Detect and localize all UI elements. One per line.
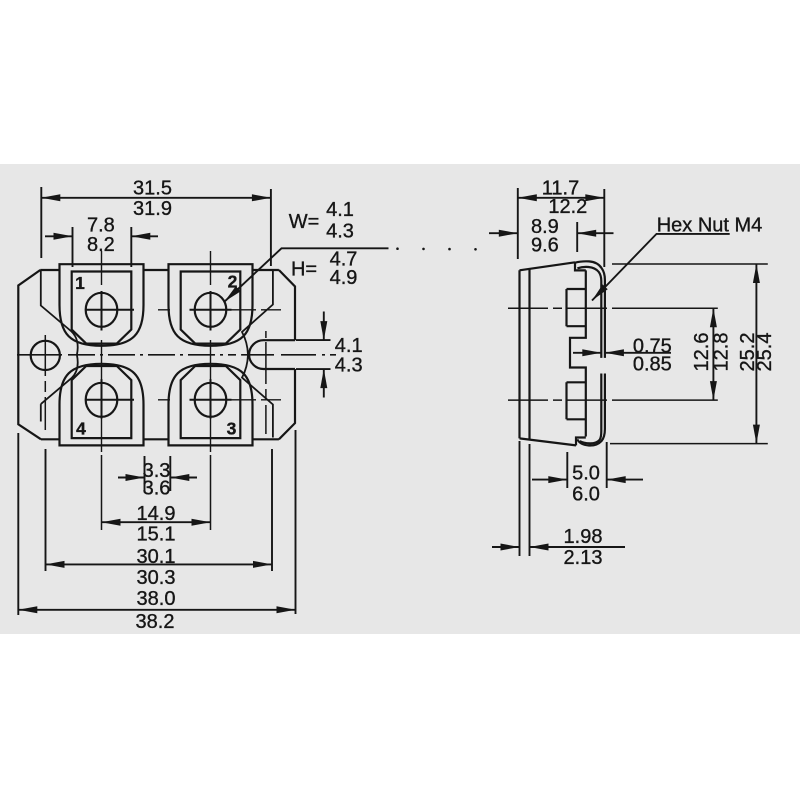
arrows 30.1	[46, 561, 65, 568]
dim 1.98/2.13 ext lines	[520, 441, 530, 556]
dim 3.3/3.6 arrow tails	[118, 477, 197, 479]
package body outline with corner cuts and right open slot	[18, 270, 295, 439]
rim corner contour top-right	[242, 270, 273, 355]
svg-text:31.9: 31.9	[133, 198, 172, 220]
svg-text:15.1: 15.1	[137, 524, 176, 546]
terminal column centerlines	[102, 251, 211, 452]
dim 8.9/9.6 arrow tails	[489, 232, 614, 234]
svg-text:30.3: 30.3	[137, 567, 176, 589]
bottom clip inner curve	[580, 374, 602, 444]
dim 25.2/25.4 ext lines	[610, 264, 768, 444]
bottom step notch	[576, 438, 586, 446]
upper nut centerline	[508, 307, 613, 309]
top slanted edge	[520, 262, 576, 270]
right mounting hole centerline vertical	[265, 331, 267, 434]
dim 31.5/31.9 ext lines	[41, 187, 271, 266]
dim 14.9/15.1 line	[102, 521, 211, 523]
svg-text:4.3: 4.3	[335, 355, 363, 377]
dim 7.8/8.2 ext lines	[73, 227, 132, 267]
arrows 7.8	[54, 233, 73, 240]
dim 30.1/30.3 line	[46, 563, 273, 565]
dim 3.3/3.6 ext lines	[145, 456, 171, 491]
row centerline	[123, 309, 282, 311]
arrows 4.1 slot	[320, 321, 327, 340]
dim 31.5/31.9 line	[41, 197, 271, 199]
bottom row terminals (terminal 4 and terminal 3) : vertical mirror of top row	[60, 364, 282, 446]
terminal 1 screw hole	[86, 293, 118, 327]
svg-text:2.13: 2.13	[564, 547, 603, 569]
svg-text:38.0: 38.0	[137, 588, 176, 610]
svg-text:4.9: 4.9	[330, 267, 358, 289]
arrows 11.7	[518, 194, 537, 201]
dim 4.1/4.3 slot ext lines	[296, 340, 331, 369]
svg-text:1.98: 1.98	[564, 526, 603, 548]
bottom clip outer curve	[577, 374, 605, 446]
svg-text:25.4: 25.4	[754, 333, 776, 372]
svg-text:12.6: 12.6	[691, 333, 713, 372]
hex nut leader line	[592, 234, 730, 301]
arrow hex nut leader	[589, 284, 607, 303]
arrows 3.3	[126, 474, 145, 481]
dim 38.0/38.2 ext lines	[18, 430, 295, 615]
terminal 1 inner collar	[72, 272, 132, 344]
dim 25.2/25.4 line	[755, 264, 757, 444]
arrow W/H leader	[222, 286, 241, 304]
svg-text:6.0: 6.0	[572, 484, 600, 506]
dim 5.0/6.0 ext lines	[567, 442, 606, 488]
svg-text:1: 1	[75, 273, 85, 293]
gray drawing band	[0, 164, 800, 634]
svg-text:0.85: 0.85	[633, 354, 672, 376]
arrows 25.2	[753, 264, 760, 283]
arrows 12.6	[710, 308, 717, 327]
dim 38.0/38.2 line	[18, 609, 295, 611]
rim corner contour bottom-right	[242, 355, 273, 438]
svg-text:4: 4	[76, 419, 86, 439]
dim 12.6/12.8 ext lines	[613, 308, 718, 400]
rim corner contour bottom-left	[41, 355, 78, 422]
top step notch	[575, 262, 586, 270]
svg-text:12.8: 12.8	[711, 333, 733, 372]
svg-text:3: 3	[227, 419, 237, 439]
rim corner contour top-left	[41, 270, 78, 355]
arrows 0.75	[582, 349, 601, 356]
hex nut lower	[567, 382, 586, 419]
dim 11.7/12.2 line	[518, 197, 605, 199]
top clip outer curve	[575, 261, 605, 358]
baseplate edges	[520, 269, 530, 440]
dim 0.75/0.85 arrow tails	[573, 352, 671, 354]
leader line for W/H callout	[224, 248, 388, 301]
svg-text:14.9: 14.9	[137, 503, 176, 525]
hex nut upper	[567, 289, 586, 326]
svg-text:38.2: 38.2	[136, 611, 175, 633]
side view dimension texts	[531, 178, 776, 570]
leader dots	[396, 247, 399, 250]
arrows 5.0	[548, 476, 567, 483]
dim 14.9/15.1 ext lines	[102, 455, 211, 530]
svg-text:W=: W=	[289, 211, 320, 233]
top row terminals group (terminal 1 and terminal 2 wells)	[60, 264, 282, 346]
svg-text:12.2: 12.2	[548, 196, 587, 218]
terminal number labels	[75, 272, 238, 439]
terminal 1 well tub	[60, 264, 144, 346]
svg-text:31.5: 31.5	[133, 178, 172, 200]
dim 4.1/4.3 arrow tails	[323, 312, 325, 398]
dim 11.7/12.2 ext lines	[518, 188, 605, 267]
top clip inner curve	[577, 267, 601, 358]
svg-text:5.0: 5.0	[572, 462, 600, 484]
svg-text:4.3: 4.3	[326, 221, 354, 243]
lower nut centerline	[508, 399, 613, 401]
left mounting hole vertical centerline	[44, 335, 46, 430]
arrows 8.9	[499, 230, 518, 237]
dim 5.0/6.0 arrow tails	[532, 479, 643, 481]
svg-text:4.1: 4.1	[326, 199, 354, 221]
svg-text:Hex Nut M4: Hex Nut M4	[657, 215, 763, 237]
bottom slanted edge	[520, 438, 577, 445]
arrows 1.98	[501, 544, 520, 551]
arrows 38.0	[18, 606, 37, 613]
left view dimension texts	[87, 178, 363, 634]
svg-text:8.2: 8.2	[87, 234, 115, 256]
terminal 2 inner collar	[181, 272, 241, 344]
svg-text:30.1: 30.1	[137, 546, 176, 568]
dim 8.9/9.6 ext line	[576, 222, 578, 252]
dim 1.98/2.13 arrow tails	[492, 546, 625, 548]
terminal 1 hole cross	[86, 291, 135, 331]
body right wall with middle recess	[570, 270, 586, 436]
dim 7.8/8.2 arrow tails	[45, 235, 158, 237]
svg-text:3.6: 3.6	[143, 478, 171, 500]
main horizontal centerline	[17, 354, 62, 356]
terminal 2 hole cross	[190, 291, 232, 331]
terminal 2 well tub	[169, 264, 253, 346]
dim 12.6/12.8 line	[712, 308, 714, 400]
terminal 2 screw hole	[195, 293, 227, 327]
svg-text:H=: H=	[291, 259, 317, 281]
arrows 14.9	[102, 519, 121, 526]
arrows 31.5	[41, 194, 60, 201]
left mounting hole	[31, 341, 60, 370]
svg-text:9.6: 9.6	[531, 235, 559, 257]
dim 30.1/30.3 ext lines	[46, 449, 273, 571]
